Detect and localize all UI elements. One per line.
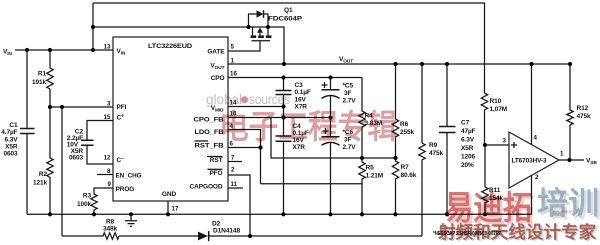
- svg-text:1206: 1206: [461, 154, 476, 161]
- svg-text:121k: 121k: [33, 180, 48, 187]
- junction LDO RST: [258, 145, 262, 149]
- svg-text:R3: R3: [83, 193, 92, 200]
- capacitor C1: [1, 50, 34, 214]
- capacitor C7: [439, 64, 476, 216]
- junction R9 VOUT: [420, 62, 424, 66]
- watermark eetop red: [444, 186, 600, 229]
- svg-text:www.eetop.cn: www.eetop.cn: [553, 209, 572, 214]
- junction R1 R2: [48, 105, 52, 109]
- wire feedback lower row: [261, 183, 363, 185]
- junction R1 tap: [48, 48, 52, 52]
- svg-text:3: 3: [503, 138, 507, 145]
- pin numbers left: [104, 44, 112, 189]
- svg-text:D2: D2: [212, 220, 221, 227]
- svg-text:6.3V: 6.3V: [461, 137, 475, 144]
- ground symbol: [125, 214, 137, 226]
- svg-text:4: 4: [534, 135, 538, 142]
- wire VIN rail: [15, 49, 113, 51]
- wire RST_FB: [228, 147, 261, 149]
- svg-text:16: 16: [230, 71, 237, 78]
- svg-text:0603: 0603: [3, 151, 18, 158]
- svg-text:5: 5: [231, 44, 235, 51]
- wire LDO_FB: [228, 130, 261, 184]
- capacitor C3: [276, 78, 311, 111]
- wire U2 gnd pin2: [531, 176, 533, 215]
- wire RST stub: [228, 161, 242, 163]
- svg-text:X5R: X5R: [461, 145, 474, 152]
- svg-text:R8: R8: [106, 219, 115, 226]
- svg-text:R5: R5: [366, 165, 375, 172]
- wire CPO_FB cap row: [228, 117, 331, 119]
- wire U2 output: [559, 159, 584, 161]
- junction GND pin: [166, 212, 170, 216]
- resistor R8: [62, 219, 119, 240]
- resistor R6: [392, 64, 414, 158]
- svg-text:1,07M: 1,07M: [490, 106, 508, 113]
- svg-text:20%: 20%: [461, 162, 474, 169]
- svg-text:2.7V: 2.7V: [343, 98, 357, 105]
- watermark globalsources: [206, 92, 290, 107]
- svg-text:R9: R9: [429, 142, 438, 149]
- junction C3 CPO: [281, 75, 285, 79]
- svg-text:电子工程专辑: 电子工程专辑: [219, 108, 397, 145]
- svg-text:sources: sources: [249, 92, 290, 107]
- wire PFI node down to R8 line: [61, 107, 63, 236]
- svg-text:191k: 191k: [32, 79, 47, 86]
- svg-text:R6: R6: [400, 121, 409, 128]
- svg-text:射频和天线设计专家: 射频和天线设计专家: [437, 222, 596, 242]
- junction R3 gnd: [92, 212, 96, 216]
- svg-text:X5R: X5R: [5, 143, 18, 150]
- svg-text:global: global: [206, 92, 242, 107]
- svg-text:Q1: Q1: [284, 7, 293, 14]
- junction R2 gnd: [48, 212, 52, 216]
- resistor R1: [32, 50, 53, 107]
- wire EN_CHG stub: [97, 174, 113, 176]
- junction C5 CPO: [328, 75, 332, 79]
- svg-text:FDC604P: FDC604P: [268, 16, 303, 23]
- capacitor C5 supercap: [322, 78, 357, 118]
- wire VIN to Q1 source: [93, 27, 284, 64]
- svg-text:1.21M: 1.21M: [366, 173, 384, 180]
- WATERMARKS: [206, 92, 600, 243]
- svg-text:*C5: *C5: [343, 83, 354, 90]
- svg-text:0603: 0603: [69, 155, 84, 162]
- svg-text:348k: 348k: [103, 226, 118, 233]
- svg-text:11: 11: [231, 181, 238, 188]
- junction Q1 drain VOUT: [282, 62, 286, 66]
- svg-text:6.3V: 6.3V: [5, 136, 19, 143]
- wire ground rail: [27, 213, 532, 215]
- junction Q1 source branch: [91, 25, 95, 29]
- svg-text:X7R: X7R: [293, 144, 306, 151]
- svg-text:1: 1: [560, 151, 564, 158]
- junction C5 C6 row: [328, 115, 332, 119]
- junction x93 tap: [91, 48, 95, 52]
- junction R12 output: [567, 158, 571, 162]
- wire VOUT rail: [228, 63, 570, 65]
- svg-text:C3: C3: [295, 82, 304, 89]
- svg-text:LTC3226EUD: LTC3226EUD: [148, 43, 192, 50]
- svg-text:R1: R1: [38, 71, 47, 78]
- resistor R10: [481, 64, 507, 145]
- resistor R4: [359, 78, 382, 159]
- junction R6 VOUT: [393, 62, 397, 66]
- svg-text:R2: R2: [39, 171, 48, 178]
- junction C7 VOUT: [445, 62, 449, 66]
- wire GND pin 17: [167, 201, 169, 214]
- junction R12 VOUT: [568, 62, 572, 66]
- pin numbers right: [172, 44, 238, 213]
- wire VMID row: [228, 106, 284, 108]
- capacitor C6 supercap: [322, 118, 357, 217]
- svg-text:3F: 3F: [344, 90, 352, 97]
- wire top rail VIN to R10 pull-up: [93, 3, 485, 64]
- transistor Q1 FDC604P: [228, 7, 303, 51]
- svg-text:2: 2: [231, 167, 235, 174]
- capacitor C4: [276, 118, 309, 217]
- svg-text:100k: 100k: [77, 201, 92, 208]
- svg-text:9: 9: [108, 181, 112, 188]
- svg-text:R12: R12: [577, 105, 589, 112]
- svg-text:47µF: 47µF: [461, 128, 476, 135]
- svg-text:D1N4148: D1N4148: [213, 227, 240, 234]
- svg-text:CAPGOOD: CAPGOOD: [190, 184, 223, 191]
- svg-text:PFO: PFO: [209, 170, 222, 177]
- junction PFO D2: [248, 234, 252, 238]
- svg-text:7: 7: [231, 155, 235, 162]
- svg-text:12: 12: [104, 155, 111, 162]
- wire VMID drop: [283, 107, 285, 118]
- wire PFI row: [50, 106, 113, 108]
- svg-text:3: 3: [107, 101, 111, 108]
- resistor R3: [77, 188, 113, 214]
- resistor R7: [392, 158, 416, 216]
- junction R8 branch: [60, 105, 64, 109]
- watermark slogan: [437, 222, 598, 243]
- svg-text:PFI: PFI: [117, 104, 127, 111]
- svg-text:4.7µF: 4.7µF: [1, 129, 17, 136]
- svg-text:CPO: CPO: [211, 75, 225, 82]
- resistor R9: [419, 64, 444, 236]
- node VIN input label: [3, 49, 12, 57]
- svg-text:17: 17: [172, 206, 179, 213]
- svg-text:0.1µF: 0.1µF: [295, 89, 311, 96]
- junction C3 VMID: [281, 104, 285, 108]
- junction gnd symbol: [129, 212, 133, 216]
- svg-text:易迪拓: 易迪拓: [444, 189, 532, 226]
- svg-text:255k: 255k: [400, 129, 415, 136]
- svg-text:13: 13: [104, 44, 111, 51]
- svg-text:C7: C7: [461, 120, 470, 127]
- svg-text:2: 2: [535, 174, 539, 181]
- svg-text:16V: 16V: [295, 97, 307, 104]
- junction R4 R5: [360, 156, 364, 160]
- wire U2 supply pin4: [531, 64, 533, 145]
- diode D2 D1N4148: [119, 220, 422, 241]
- wire feedback row: [271, 118, 396, 159]
- wire vertical x93 to top rail: [92, 3, 94, 50]
- svg-text:475k: 475k: [429, 150, 444, 157]
- resistor R2: [33, 107, 53, 214]
- resistor R11: [482, 145, 504, 216]
- resistor R5: [359, 158, 383, 216]
- capacitor C2 flying cap: [67, 121, 113, 165]
- wire CPO row: [228, 77, 362, 79]
- svg-text:PROG: PROG: [116, 186, 135, 193]
- junction U2 supply VOUT: [529, 62, 533, 66]
- wire CAPGOOD stub: [228, 187, 243, 189]
- junction R6 R7: [393, 156, 397, 160]
- svg-text:GATE: GATE: [207, 49, 225, 56]
- svg-text:R7: R7: [401, 164, 410, 171]
- svg-text:LT6703HV-3: LT6703HV-3: [512, 158, 547, 165]
- wire PFO: [228, 175, 250, 236]
- junction R10 R11 input: [483, 143, 487, 147]
- resistor R12: [567, 64, 591, 160]
- svg-text:C1: C1: [9, 122, 18, 129]
- svg-text:2.7V: 2.7V: [343, 144, 357, 151]
- IC U1 LTC3226EUD box: [113, 37, 228, 201]
- svg-text:80.6k: 80.6k: [401, 172, 417, 179]
- junction C1 tap: [25, 48, 29, 52]
- svg-text:R10: R10: [490, 98, 502, 105]
- svg-text:EN_CHG: EN_CHG: [116, 173, 142, 180]
- svg-text:RST: RST: [210, 157, 223, 164]
- svg-text:475k: 475k: [577, 113, 592, 120]
- svg-text:GND: GND: [162, 191, 177, 198]
- svg-text:培训: 培训: [537, 186, 599, 221]
- junction C4 row: [281, 115, 285, 119]
- op-amp U2 LT6703HV-3: [503, 132, 564, 188]
- wire comparator plus input: [485, 144, 509, 146]
